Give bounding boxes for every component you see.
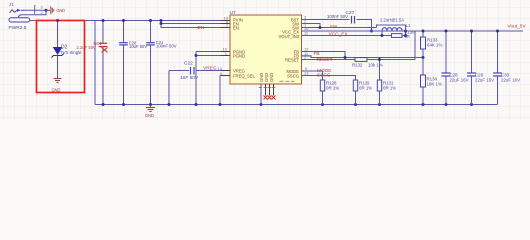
wire rail down at x95 to gnd bus: [94, 21, 96, 105]
junction bus R134: [422, 103, 425, 106]
resistor R129 (SSCG pulldown): [302, 76, 373, 105]
capacitor C30: [493, 31, 520, 105]
svg-text:FB: FB: [314, 51, 320, 57]
capacitor NC1 (not fitted, red): [77, 21, 108, 105]
svg-text:RESET: RESET: [317, 57, 333, 63]
wire rail to D2: [57, 21, 59, 48]
svg-text:3: 3: [41, 6, 43, 10]
diode D2 TVS: [52, 45, 83, 58]
svg-text:PGND: PGND: [233, 54, 245, 59]
svg-text:GND: GND: [145, 113, 154, 118]
wire C22 left to gnd bus: [168, 71, 170, 105]
svg-text:10uF 50V: 10uF 50V: [129, 44, 147, 49]
junction bus NC1: [102, 103, 105, 106]
junction bus C20: [122, 103, 125, 106]
svg-text:PWR2.5: PWR2.5: [9, 25, 27, 31]
svg-text:FREQ_SEL: FREQ_SEL: [233, 74, 256, 79]
svg-text:2.2uH@1.5A: 2.2uH@1.5A: [380, 17, 404, 22]
junction bus FREQ_SEL: [219, 103, 222, 106]
wire VCC_EX: [302, 30, 406, 32]
svg-text:64K 1%: 64K 1%: [427, 43, 442, 48]
svg-text:VOUT_IN3: VOUT_IN3: [279, 34, 300, 39]
svg-text:RESET: RESET: [285, 58, 299, 63]
junction bus R129: [354, 103, 357, 106]
resistor R132 on RESET + pullup to rail: [302, 31, 416, 68]
pin stubs bottom with no-ERC marks: [259, 81, 295, 104]
red highlight box: [37, 21, 85, 93]
junction bus U7 GND pin: [260, 103, 263, 106]
junction J1 gnd: [45, 9, 48, 12]
op-amp U7 (buck regulator IC): [230, 10, 302, 84]
pin numbers right: [304, 15, 309, 76]
wire D2 to ground: [57, 56, 59, 79]
svg-text:GND: GND: [56, 8, 65, 13]
svg-text:GND: GND: [52, 88, 61, 93]
svg-text:TVS Single: TVS Single: [60, 50, 82, 55]
connector J1 (power jack PWR2.5): [9, 2, 43, 31]
resistor R131 (RESET pulldown): [377, 58, 396, 105]
svg-text:L1: L1: [406, 23, 411, 28]
junction bus C28: [445, 103, 448, 106]
junction bus C22: [168, 103, 171, 106]
ground below D2: [52, 79, 62, 93]
svg-text:18K 1%: 18K 1%: [427, 82, 442, 87]
svg-text:22uF 16V: 22uF 16V: [475, 78, 494, 83]
svg-text:C22: C22: [184, 61, 193, 67]
svg-text:SSCG: SSCG: [287, 74, 299, 79]
svg-text:J1: J1: [9, 2, 14, 7]
pin numbers left: [218, 16, 229, 77]
wire PGND join: [196, 51, 230, 53]
wire J1 tip to GND: [24, 9, 46, 11]
pin stubs right: [302, 20, 312, 76]
junction bus C21: [149, 103, 152, 106]
svg-text:0R 1%: 0R 1%: [359, 86, 372, 91]
resistor R128 (MODE pulldown): [302, 71, 340, 105]
wire output rail: [406, 30, 524, 32]
svg-text:U7: U7: [230, 10, 236, 16]
capacitor C29: [467, 31, 494, 105]
wire BST with capacitor C27: [302, 10, 372, 31]
svg-text:22uF 16V: 22uF 16V: [501, 78, 520, 83]
svg-text:VCC_EX: VCC_EX: [329, 31, 349, 37]
wire FREQ_SEL to bus: [220, 76, 230, 105]
capacitor C21: [146, 21, 176, 105]
junction rail C21: [149, 19, 152, 22]
svg-text:0R 1%: 0R 1%: [326, 86, 339, 91]
svg-text:VREG: VREG: [203, 66, 217, 72]
capacitor C22 (series on VREG line): [169, 61, 230, 82]
junction bus R128: [321, 103, 324, 106]
resistor R133 (divider top): [421, 31, 443, 58]
pin stubs left: [221, 21, 231, 76]
junction EN: [160, 19, 163, 22]
junction bus C29: [470, 103, 473, 106]
junction PGND: [195, 54, 198, 57]
junction bus R131: [378, 103, 381, 106]
resistor R134 (divider bottom): [421, 58, 442, 105]
svg-text:100nF 50V: 100nF 50V: [156, 44, 177, 49]
svg-text:SW: SW: [330, 24, 338, 30]
svg-text:0R 1%: 0R 1%: [383, 86, 396, 91]
svg-text:Vout_5V: Vout_5V: [508, 23, 527, 29]
junction rail NC1: [102, 19, 105, 22]
svg-text:EN: EN: [233, 26, 239, 31]
svg-text:2.2uF 50V: 2.2uF 50V: [77, 45, 97, 50]
wire J1 switch contact: [21, 10, 47, 15]
svg-text:GND: GND: [269, 73, 274, 82]
junction BST to VCC_EX wire: [370, 30, 373, 33]
wire SW over inductor (L1 top line): [377, 25, 406, 28]
ground symbol on bus: [145, 105, 155, 119]
svg-text:EN: EN: [198, 25, 205, 31]
ground bus: [95, 104, 498, 106]
wire SW join: [302, 24, 321, 28]
ground GND (top, sideways): [46, 6, 65, 14]
svg-text:100nF 50V: 100nF 50V: [327, 14, 348, 19]
wire FB: [302, 52, 425, 60]
capacitor C20: [119, 21, 147, 105]
wire EN drop vertical: [161, 21, 230, 28]
svg-text:22uF 16V: 22uF 16V: [450, 78, 469, 83]
wire main input rail: [30, 20, 230, 22]
junction bus PGND: [195, 103, 198, 106]
output node column: [405, 25, 407, 36]
svg-text:R132: R132: [352, 63, 363, 68]
svg-text:10k 1%: 10k 1%: [368, 63, 383, 68]
capacitor C28: [442, 31, 469, 105]
junction rail C20: [122, 19, 125, 22]
wire VOUT_IN3 with resistor R130: [302, 30, 416, 40]
inductor L1: [380, 17, 411, 31]
wire EN1: [161, 23, 230, 25]
